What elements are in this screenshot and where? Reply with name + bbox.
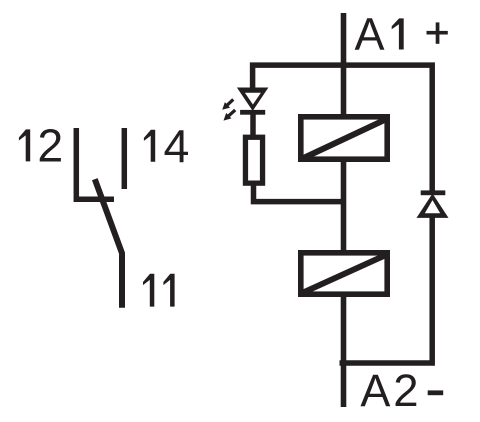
svg-text:2: 2 <box>393 365 418 416</box>
svg-text:A: A <box>360 365 390 416</box>
svg-text:2: 2 <box>37 119 63 171</box>
svg-text:4: 4 <box>164 120 190 172</box>
svg-text:A: A <box>355 9 385 60</box>
